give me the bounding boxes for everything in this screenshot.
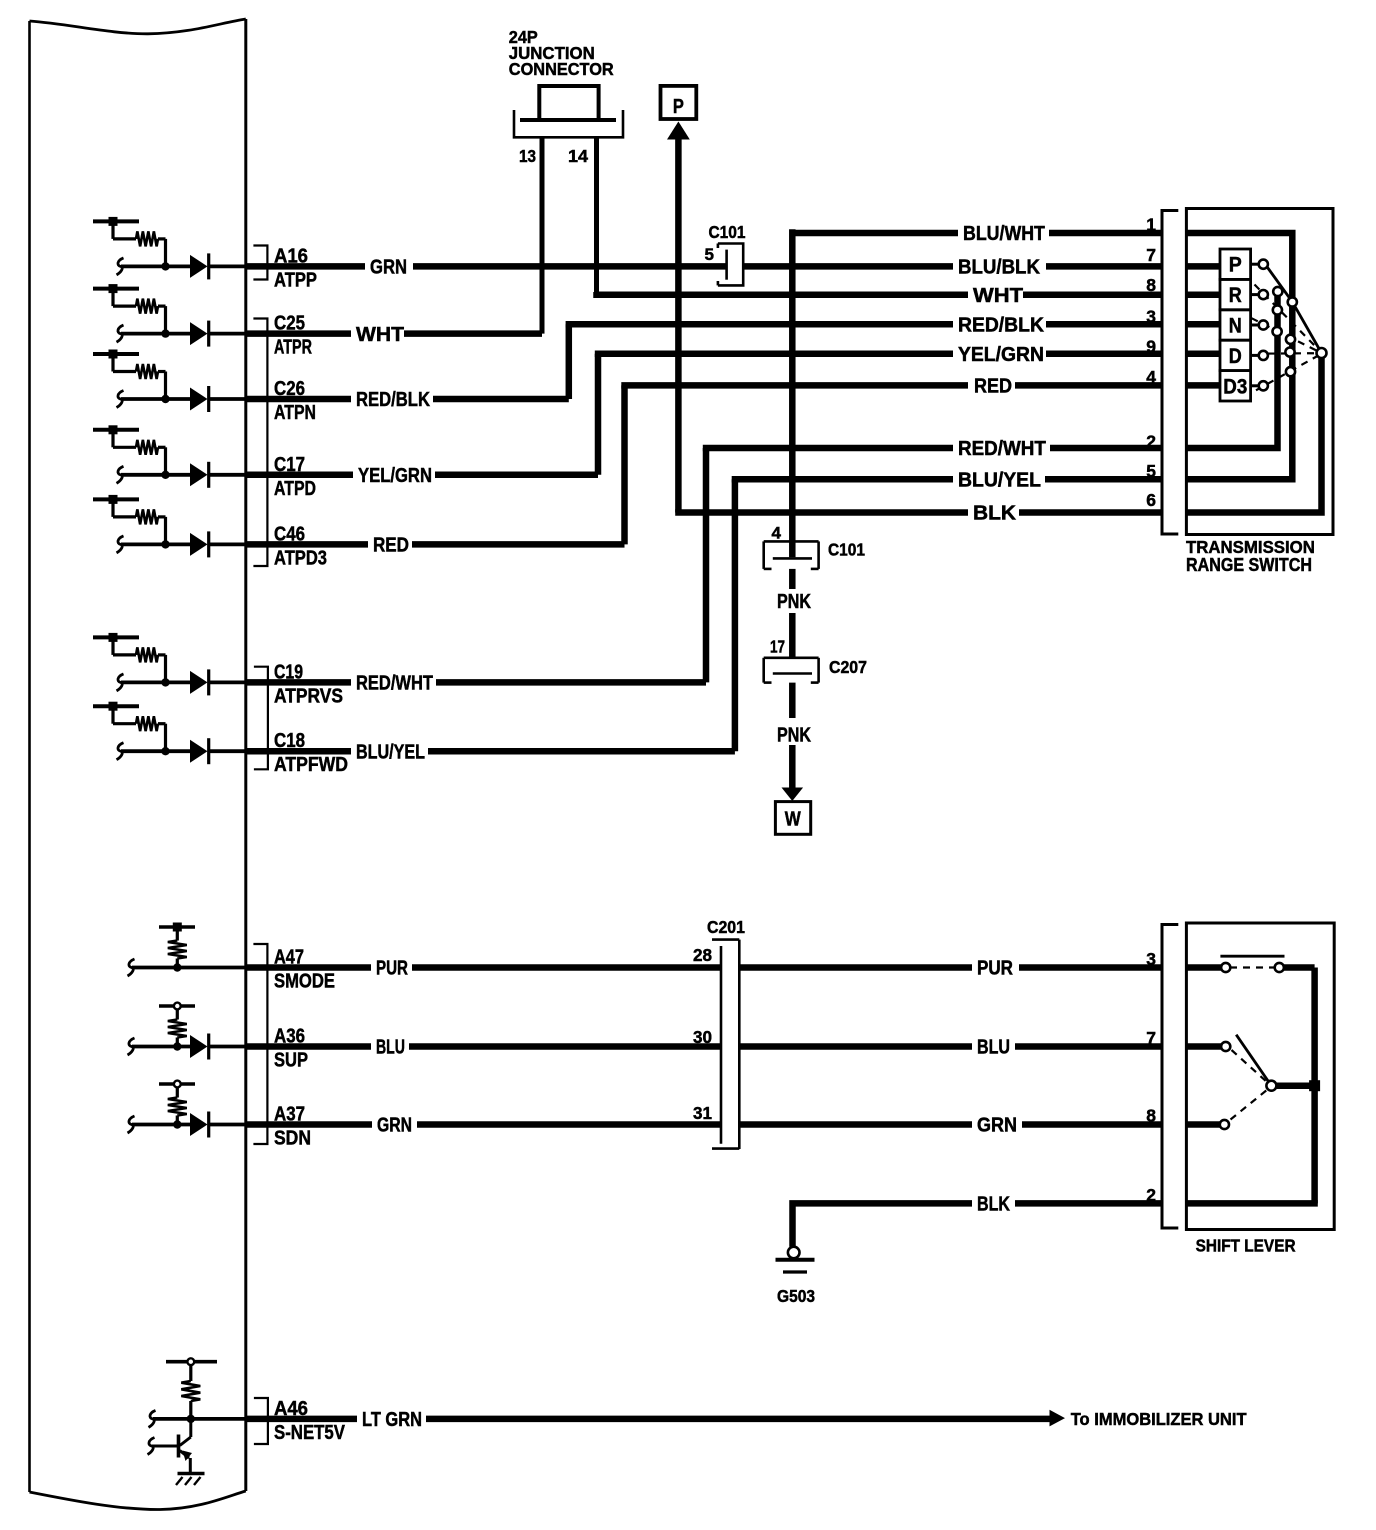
- wire RED/WHT riser: [703, 448, 710, 682]
- node P (parking signal) arrow and box: [675, 138, 682, 513]
- node W (warning) arrow and box: [782, 788, 804, 802]
- wire GRN from C201 to shift lever pin 8: [739, 1121, 972, 1128]
- wire pin 3 to N contact: [1186, 321, 1220, 328]
- svg-text:5: 5: [705, 245, 714, 264]
- svg-text:C207: C207: [829, 657, 867, 677]
- svg-text:D: D: [1229, 345, 1242, 369]
- internal pull-up resistor network for pin C18: [93, 704, 139, 708]
- wire RED riser: [621, 385, 628, 544]
- wire BLU/WHT riser down to C101 pin 4: [789, 229, 796, 557]
- svg-text:WHT: WHT: [356, 323, 404, 345]
- svg-text:LT GRN: LT GRN: [362, 1408, 422, 1431]
- svg-text:C101: C101: [709, 223, 746, 242]
- resistor R (A46 pull-up): [189, 1364, 192, 1381]
- svg-text:4: 4: [772, 524, 782, 543]
- wire PUR from C201 to shift lever pin 3: [739, 964, 972, 971]
- wire RED/BLK to range switch pin 3: [566, 321, 953, 328]
- svg-text:PNK: PNK: [777, 724, 811, 746]
- svg-text:BLU: BLU: [977, 1036, 1010, 1058]
- wire internal to pin C25: [117, 325, 124, 342]
- 5V supply symbol for A46 S-NET5V: [166, 1360, 217, 1364]
- wire PNK between C101 and C207: [789, 569, 796, 589]
- wire internal to pin C17: [117, 466, 124, 483]
- wire internal to pin C18: [117, 743, 124, 760]
- wire internal to pin A46: [149, 1410, 156, 1427]
- svg-text:RED: RED: [974, 376, 1012, 398]
- svg-text:ATPRVS: ATPRVS: [274, 684, 343, 706]
- wire pin 9 to D contact: [1186, 351, 1220, 358]
- wire RED/BLK from C26: [246, 396, 351, 403]
- wire internal to pin A37: [128, 1116, 135, 1133]
- diode at pin C19: [190, 671, 208, 694]
- shift lever switch enclosure: [1186, 923, 1334, 1230]
- diode at pin C26: [190, 388, 208, 411]
- svg-text:GRN: GRN: [377, 1114, 412, 1136]
- rotor pivot contact: [1317, 348, 1327, 358]
- wire pin 8 to R contact: [1186, 292, 1220, 299]
- transmission range switch enclosure: [1186, 209, 1333, 535]
- svg-text:SDN: SDN: [274, 1126, 311, 1148]
- svg-text:N: N: [1229, 314, 1242, 338]
- svg-text:14: 14: [568, 146, 588, 166]
- svg-text:RED/BLK: RED/BLK: [958, 314, 1045, 336]
- ground G503: [788, 1247, 800, 1259]
- svg-text:P: P: [1229, 254, 1242, 277]
- wire pin 5 riser inside switch: [1186, 303, 1292, 479]
- svg-text:7: 7: [1146, 1028, 1156, 1048]
- wire GRN from A37 to C201 pin 31: [246, 1121, 372, 1128]
- internal pull-up resistor network for pin C17: [93, 428, 139, 432]
- svg-text:6: 6: [1146, 490, 1156, 510]
- wire YEL/GRN from C17: [246, 472, 353, 479]
- wire BLU from A36 to C201 pin 30: [246, 1043, 371, 1050]
- shift lever contacts: [1221, 963, 1230, 972]
- internal pull-up resistor for pin A36: [159, 1004, 195, 1008]
- svg-text:RANGE SWITCH: RANGE SWITCH: [1186, 555, 1312, 575]
- wire RED/BLK riser: [566, 324, 573, 399]
- connector C101 pin 5 (in-line): [718, 242, 745, 245]
- svg-text:BLU: BLU: [376, 1035, 405, 1058]
- PCM/ECU block outline (torn-edge box): [28, 21, 31, 1492]
- svg-text:BLU/YEL: BLU/YEL: [356, 741, 425, 763]
- connector bracket at shift lever: [1162, 925, 1178, 1229]
- connector bracket pins C19-C18: [254, 667, 268, 770]
- svg-text:GRN: GRN: [370, 255, 407, 278]
- wire internal to pin A36: [128, 1038, 135, 1055]
- svg-text:CONNECTOR: CONNECTOR: [509, 58, 614, 79]
- wire BLU/YEL from C18: [246, 748, 351, 755]
- internal pull-up resistor network for pin C25: [93, 287, 139, 291]
- wire internal to pin A47: [128, 959, 135, 976]
- svg-text:2: 2: [1146, 1185, 1156, 1205]
- gear position boxes P R N D D3: [1220, 249, 1251, 279]
- internal pull-up resistor network for pin C19: [93, 635, 139, 639]
- wire BLK from G503 to shift lever pin 2: [793, 1203, 973, 1246]
- wire junction connector pin 14 riser: [594, 137, 599, 292]
- connector bracket pins A47-A37: [253, 944, 267, 1144]
- svg-text:TRANSMISSION: TRANSMISSION: [1186, 536, 1315, 557]
- wire pin 4 to D3 contact: [1186, 382, 1220, 389]
- wire internal to pin A16: [117, 258, 124, 275]
- wire YEL/GRN riser: [595, 354, 602, 475]
- diode at pin A37: [190, 1113, 208, 1136]
- svg-text:PNK: PNK: [777, 590, 811, 612]
- wire BLU/YEL riser: [732, 479, 739, 751]
- wire junction connector pin 13 riser: [540, 137, 545, 333]
- svg-text:R: R: [1229, 284, 1242, 308]
- svg-text:SUP: SUP: [274, 1048, 308, 1071]
- internal pull-up resistor for pin A47: [159, 925, 195, 929]
- svg-text:GRN: GRN: [977, 1115, 1017, 1137]
- diode at pin C18: [190, 740, 208, 763]
- wire pin 2 riser inside switch: [1186, 293, 1277, 448]
- ground (emitter of Q1): [178, 1472, 205, 1476]
- svg-text:YEL/GRN: YEL/GRN: [358, 464, 432, 487]
- internal pull-up resistor network for pin A16: [93, 219, 139, 223]
- wire pin 7 to P contact: [1186, 263, 1220, 270]
- svg-text:BLU/YEL: BLU/YEL: [958, 469, 1041, 491]
- wire pin 1 inside switch: [1186, 233, 1292, 300]
- svg-text:SMODE: SMODE: [274, 969, 335, 992]
- wire pin 7 to contact: [1186, 1043, 1221, 1050]
- svg-text:SHIFT LEVER: SHIFT LEVER: [1196, 1235, 1296, 1255]
- connector bracket pin A16: [253, 246, 267, 280]
- svg-text:8: 8: [1146, 1106, 1156, 1126]
- lever common wire to riser: [1276, 1082, 1315, 1089]
- connector bracket pins C25-C46: [253, 319, 267, 567]
- svg-text:G503: G503: [777, 1286, 815, 1306]
- svg-text:2: 2: [1146, 432, 1156, 452]
- svg-text:YEL/GRN: YEL/GRN: [958, 344, 1044, 366]
- svg-text:To IMMOBILIZER UNIT: To IMMOBILIZER UNIT: [1071, 1408, 1247, 1429]
- svg-text:3: 3: [1146, 307, 1156, 327]
- connector C201 (in-line): [712, 938, 739, 941]
- wire PUR from A47 to C201 pin 28: [246, 964, 371, 971]
- wire internal to pin C46: [117, 536, 124, 553]
- rotor arm solid (P position): [1267, 267, 1293, 302]
- svg-text:ATPD3: ATPD3: [274, 546, 327, 569]
- connector C207 (in-line): [764, 656, 819, 659]
- wire RED/WHT to range switch pin 2: [703, 445, 953, 452]
- svg-text:P: P: [673, 94, 684, 117]
- svg-text:BLK: BLK: [977, 1193, 1010, 1215]
- svg-text:4: 4: [1146, 367, 1156, 387]
- svg-text:RED: RED: [373, 533, 409, 556]
- svg-text:W: W: [785, 807, 801, 830]
- diode at pin C46: [190, 533, 208, 556]
- wire RED from C46: [246, 541, 368, 548]
- transistor Q1 (S-NET5V driver): [189, 1419, 192, 1437]
- wire LT GRN from A46 to immobilizer unit: [246, 1416, 357, 1423]
- wire YEL/GRN to range switch pin 9: [595, 351, 953, 358]
- svg-text:C201: C201: [707, 917, 745, 937]
- diode at pin A36: [190, 1035, 208, 1058]
- svg-text:D3: D3: [1223, 375, 1247, 398]
- internal pull-up resistor network for pin C26: [93, 352, 139, 356]
- wire WHT from C25 to junction connector pin 13: [246, 330, 351, 337]
- svg-text:BLK: BLK: [973, 502, 1016, 524]
- svg-text:S-NET5V: S-NET5V: [274, 1420, 346, 1443]
- lever arm solid: [1236, 1035, 1270, 1085]
- 24P junction connector: [539, 86, 598, 120]
- contact stubs from gear boxes: [1251, 263, 1259, 266]
- park switch contact pair: [1220, 955, 1284, 958]
- wire from contact to common riser: [1284, 964, 1315, 971]
- wire BLU/BLK from C101 to range switch pin 7: [745, 263, 954, 270]
- wire WHT from junction connector pin 14 to range switch pin 8: [597, 292, 969, 295]
- wire RED to range switch pin 4: [621, 382, 968, 389]
- svg-text:ATPP: ATPP: [274, 268, 317, 291]
- svg-text:9: 9: [1146, 337, 1156, 357]
- lever arm dashed to contacts: [1232, 1050, 1268, 1083]
- wire BLU from C201 to shift lever pin 7: [739, 1043, 972, 1050]
- internal pull-up resistor for pin A37: [159, 1082, 195, 1086]
- svg-text:WHT: WHT: [973, 285, 1023, 307]
- svg-text:3: 3: [1146, 949, 1156, 969]
- svg-text:PUR: PUR: [977, 956, 1014, 979]
- switch contacts (circles): [1259, 260, 1268, 269]
- svg-text:C101: C101: [828, 541, 865, 560]
- svg-text:ATPD: ATPD: [274, 477, 316, 499]
- svg-text:1: 1: [1146, 215, 1156, 235]
- wire PNK from C207 to W node: [789, 683, 796, 718]
- svg-text:ATPFWD: ATPFWD: [274, 753, 348, 775]
- connector bracket pin A46: [254, 1398, 268, 1444]
- svg-text:RED/WHT: RED/WHT: [356, 671, 433, 694]
- diode at pin A16: [190, 255, 208, 278]
- svg-text:17: 17: [770, 638, 785, 657]
- svg-text:ATPR: ATPR: [274, 335, 312, 358]
- common riser wire: [1311, 968, 1318, 1204]
- svg-text:RED/BLK: RED/BLK: [356, 388, 431, 411]
- wire internal to pin C26: [117, 391, 124, 408]
- wire GRN from A16 to C101 pin 5: [246, 263, 365, 270]
- svg-text:BLU/BLK: BLU/BLK: [958, 256, 1040, 279]
- svg-text:7: 7: [1146, 245, 1156, 265]
- wire pin 2 inside shift lever to common riser: [1186, 1200, 1317, 1207]
- wire pin 6 riser to rotor pivot: [1186, 355, 1321, 513]
- svg-text:BLU/WHT: BLU/WHT: [963, 223, 1045, 245]
- wire RED/WHT from C19: [246, 679, 351, 686]
- rotor arm dashed alternate positions: [1255, 285, 1318, 349]
- svg-text:13: 13: [519, 147, 536, 166]
- svg-text:28: 28: [693, 945, 712, 965]
- internal pull-up resistor network for pin C46: [93, 497, 139, 501]
- wire BLU/WHT to range switch pin 1: [792, 230, 958, 237]
- svg-text:5: 5: [1146, 461, 1156, 481]
- diode at pin C17: [190, 463, 208, 486]
- connector C101 pin 4 (in-line): [764, 540, 819, 543]
- svg-text:31: 31: [693, 1103, 712, 1123]
- svg-text:8: 8: [1146, 275, 1156, 295]
- svg-text:PUR: PUR: [376, 957, 408, 980]
- wire pin 3 to park-position contact: [1186, 964, 1221, 971]
- wire BLK from P-node to range switch pin 6: [675, 509, 968, 516]
- connector bracket at transmission range switch: [1162, 211, 1178, 535]
- wire BLU/YEL to range switch pin 5: [732, 476, 953, 483]
- svg-text:ATPN: ATPN: [274, 401, 316, 423]
- svg-text:RED/WHT: RED/WHT: [958, 438, 1046, 461]
- diode at pin C25: [190, 322, 208, 345]
- wire pin 8 to contact: [1186, 1121, 1219, 1128]
- wire internal to pin C19: [117, 674, 124, 691]
